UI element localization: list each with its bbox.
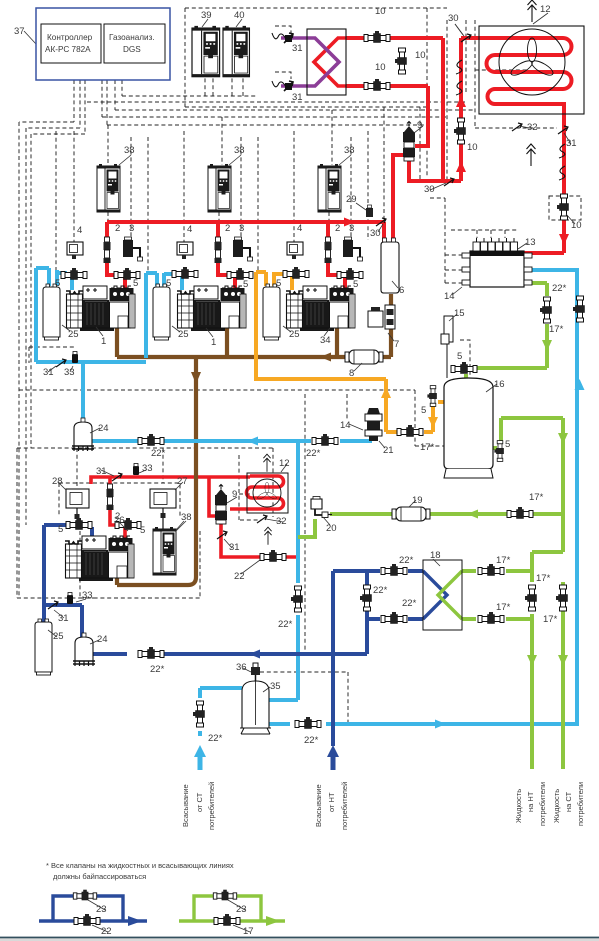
wire: MT discharge header to oil separator [107, 222, 384, 242]
drops to MT VFDs 38 [108, 110, 332, 165]
pressure switch 4 compressor 2 [177, 242, 193, 259]
svg-text:22*: 22* [304, 735, 319, 746]
LT condenser fan ring [253, 479, 281, 507]
air arrow above LT condenser [263, 454, 270, 472]
svg-text:DGS: DGS [123, 45, 141, 54]
air flow arrow below gas cooler [527, 144, 536, 166]
LT condenser 12 housing [247, 473, 288, 513]
line break mark [559, 166, 565, 180]
svg-text:27: 27 [177, 476, 188, 487]
per group sensor wires [74, 131, 294, 242]
valve 10 heat-reclaim bottom line [364, 79, 390, 91]
svg-text:5: 5 [58, 524, 63, 535]
compressor 1 (first MT) [66, 286, 135, 331]
receiver 16 [444, 378, 493, 478]
check valve 31 heat-reclaim top [284, 33, 293, 43]
wire: compressor 2 suction riser [146, 273, 178, 358]
left trunk corners [19, 122, 85, 134]
svg-text:потребителей: потребителей [340, 782, 349, 830]
wire: LT suction risers to HX18 [333, 571, 367, 746]
svg-text:19: 19 [412, 495, 423, 506]
leader lines [24, 19, 464, 531]
valve 5 flash-gas outlet [427, 386, 436, 407]
drops to VFD39/40 [205, 77, 243, 96]
svg-text:от НТ: от НТ [327, 792, 336, 812]
valve 5 liquid outlet [494, 441, 503, 462]
wire: HX11 hot gas lines [346, 38, 443, 86]
line break mark [456, 81, 462, 95]
suction path inside HX 18 [423, 571, 447, 619]
svg-text:потребителей: потребителей [207, 782, 216, 830]
svg-text:потребители: потребители [576, 782, 585, 826]
svg-text:3: 3 [239, 223, 244, 234]
wire: compressor 1 suction riser [36, 268, 67, 362]
check valve 33 MT suction [72, 352, 78, 364]
oil level valve 7 [368, 305, 395, 329]
valve 22* MT suction main [138, 434, 164, 446]
air flow arrow above gas cooler [528, 0, 537, 22]
svg-text:34: 34 [320, 335, 331, 346]
svg-text:должны байпассироваться: должны байпассироваться [53, 872, 146, 881]
heat reclaim water circuit (purple) [281, 38, 339, 86]
svg-text:17*: 17* [543, 614, 558, 625]
sensor 2 discharge compressor 26 [107, 484, 114, 510]
svg-text:5: 5 [140, 525, 145, 536]
dashed near valve10 under condenser [549, 196, 581, 220]
valve 5 suction compressor 1 [61, 268, 87, 280]
page bottom rule [0, 937, 599, 939]
valve 17* HX18 liquid in [478, 564, 504, 576]
marker 32 LT condenser fan control [257, 515, 267, 523]
wire: compressor 34 discharge branch [328, 222, 345, 288]
suction accumulator 25 compressor 1 [43, 284, 60, 340]
svg-text:5: 5 [55, 278, 60, 289]
svg-text:37: 37 [14, 26, 25, 37]
svg-text:25: 25 [178, 329, 189, 340]
legend valve 17 [214, 914, 240, 926]
svg-text:Жидкость: Жидкость [552, 789, 561, 823]
svg-text:2: 2 [115, 511, 120, 522]
wire: suction stub compressor 2 [180, 276, 184, 290]
drive unit 40 [223, 26, 249, 77]
valve 5 discharge compressor 2 [227, 268, 253, 280]
svg-text:на НТ: на НТ [526, 791, 535, 812]
wire: compressor 2 discharge branch [218, 222, 235, 288]
sensor 2 discharge compressor 2 [215, 237, 222, 263]
distributor 24 MT [72, 418, 94, 451]
marker 31 LT suction [48, 601, 58, 609]
svg-text:5: 5 [457, 351, 462, 362]
svg-text:29: 29 [346, 194, 357, 205]
liquid injection valve 20 [311, 497, 332, 518]
wire: receiver flash gas port [438, 400, 446, 404]
valve 5 discharge compressor 26 [115, 518, 141, 530]
svg-text:4: 4 [297, 223, 302, 234]
svg-text:5: 5 [166, 278, 171, 289]
svg-text:38: 38 [234, 145, 245, 156]
bypass regulator 21 [365, 408, 382, 441]
regulator 9 LT [215, 485, 227, 525]
valve 22 LT discharge to MT suction [260, 550, 286, 562]
wire: liquid main [330, 512, 563, 516]
svg-text:Всасывание: Всасывание [314, 784, 323, 827]
svg-text:21: 21 [383, 445, 394, 456]
wire: liquid from manifold to receiver [475, 283, 547, 368]
wire: hot gas/bypass line to manifold riser [269, 270, 577, 726]
LT condenser dashes [239, 455, 262, 520]
valve 5 discharge compressor 34 [337, 268, 363, 280]
svg-text:2: 2 [115, 223, 120, 234]
valve 10 heat-reclaim bypass [395, 48, 407, 74]
valve 22* MT suction at regulator 21 [312, 434, 338, 446]
wire: compressor 26 discharge riser [110, 477, 125, 539]
controller 37 panel with AK-PC 782A and DGS gas analyser [36, 8, 170, 80]
valve 17* liquid to LT consumers [525, 585, 537, 611]
valve 10 gas-cooler inlet riser [454, 118, 466, 144]
svg-text:5: 5 [353, 279, 358, 290]
line break mark [456, 60, 462, 74]
svg-text:38: 38 [344, 145, 355, 156]
marker 32 gas-cooler fan control [512, 123, 522, 131]
frequency drive 38 compressor 1 [97, 164, 120, 212]
wire: MT suction riser from accumulator 35 [269, 441, 298, 700]
wire: separator outlet riser to regulator 9 [393, 155, 404, 242]
solenoid 3 compressor 2 [233, 237, 253, 261]
frequency drive 38 compressor 26 [153, 527, 176, 575]
condenser fan control + item 32 line [475, 70, 557, 128]
svg-text:24: 24 [97, 634, 108, 645]
check 31 gas-cooler outlet [558, 126, 568, 134]
legend valve 23 [213, 890, 236, 900]
wire: heat reclaim top return drop [441, 38, 445, 181]
svg-text:22*: 22* [208, 733, 223, 744]
level sensor 15 [441, 316, 453, 378]
valve 5 suction compressor 34 [283, 267, 309, 279]
solenoid 3 compressor 34 [343, 237, 363, 261]
wire: gas cooler inlet riser [459, 38, 463, 181]
svg-text:22*: 22* [373, 585, 388, 596]
svg-text:35: 35 [270, 681, 281, 692]
svg-text:АК-РС 782А: АК-РС 782А [45, 45, 91, 54]
svg-text:40: 40 [234, 10, 245, 21]
svg-text:5: 5 [421, 405, 426, 416]
valve 5 suction compressor 26 [66, 518, 92, 530]
filter drier 19 [392, 507, 430, 521]
marker 30 at gas-cooler riser [444, 178, 454, 186]
wire: LT discharge header [91, 477, 250, 484]
check valve 33 LT discharge [133, 464, 139, 476]
svg-text:Жидкость: Жидкость [514, 789, 523, 823]
sensor 2 discharge compressor 1 [104, 237, 111, 263]
svg-text:* Все клапаны на жидкостных и: * Все клапаны на жидкостных и всасывающи… [46, 861, 234, 870]
svg-text:20: 20 [326, 523, 337, 534]
svg-text:8: 8 [349, 368, 354, 379]
wire: suction stub compressor 1 [70, 276, 74, 290]
svg-text:33: 33 [142, 463, 153, 474]
wire: liquid injection to MT suction [298, 519, 315, 537]
wire: gas cooler outlet to manifold 13 [524, 128, 564, 253]
svg-text:38: 38 [124, 145, 135, 156]
svg-text:22*: 22* [552, 283, 567, 294]
svg-text:15: 15 [454, 308, 465, 319]
port labels: suction/liquid consumer connections [181, 782, 585, 830]
valve 22* hot gas riser [573, 296, 585, 322]
svg-text:12: 12 [540, 4, 551, 15]
svg-text:22*: 22* [402, 598, 417, 609]
pressure switch 27 [150, 489, 176, 529]
marker 31 MT suction [56, 359, 66, 367]
wire: compressor 1 discharge branch [107, 222, 125, 288]
svg-text:33: 33 [64, 367, 75, 378]
svg-text:36: 36 [236, 662, 247, 673]
pressure switch 4 compressor 34 [287, 242, 303, 259]
svg-text:2: 2 [335, 223, 340, 234]
dashed corners at heat reclaim stubs [275, 26, 291, 79]
legend bypass loop (liquid valves 17/23) [179, 896, 285, 921]
heat exchanger 18 (subcooler) [423, 560, 462, 630]
frequency drive 38 compressor 34 [318, 164, 341, 212]
svg-text:39: 39 [201, 10, 212, 21]
controller drop wires [74, 80, 122, 134]
svg-text:3: 3 [129, 223, 134, 234]
svg-text:5: 5 [276, 278, 281, 289]
valve 5 discharge compressor 1 [114, 268, 140, 280]
wire: oil line to LT compressor [117, 357, 196, 585]
svg-text:7: 7 [394, 339, 399, 350]
verticals to top right area [427, 8, 475, 181]
svg-text:22*: 22* [150, 664, 165, 675]
svg-text:Контроллер: Контроллер [47, 33, 93, 42]
valve 17* liquid to MT consumers [556, 585, 568, 611]
svg-text:17*: 17* [536, 573, 551, 584]
legend valve 23 [73, 890, 96, 900]
svg-text:17*: 17* [549, 324, 564, 335]
motor valve 36 and suction accumulator 35 [240, 663, 271, 734]
svg-text:31: 31 [229, 542, 240, 553]
wire: gas cooler coil [461, 38, 572, 128]
valve 10 heat-reclaim top line [364, 31, 390, 43]
svg-text:23: 23 [236, 904, 247, 915]
receiver / misc [460, 340, 470, 394]
valve 5 receiver inlet [451, 362, 477, 374]
legend valve 22 [74, 914, 100, 926]
wire: MT suction subheader to distributor 24 [36, 362, 146, 422]
svg-text:9: 9 [417, 120, 422, 131]
marker 30 on discharge header [376, 218, 386, 226]
gas cooler fan blades [509, 38, 555, 78]
valve 5 suction compressor 2 [172, 267, 198, 279]
wire: MT suction main [92, 439, 372, 443]
svg-text:10: 10 [415, 50, 426, 61]
svg-text:10: 10 [375, 6, 386, 17]
fanout horizontals to right [87, 96, 475, 125]
LT condenser fan blades [257, 482, 278, 500]
suction accumulator 25 compressor 34 [263, 284, 280, 340]
svg-text:23: 23 [96, 904, 107, 915]
svg-text:31: 31 [292, 92, 303, 103]
svg-text:25: 25 [289, 329, 300, 340]
svg-text:30: 30 [370, 228, 381, 239]
sensor 2 discharge compressor 34 [325, 237, 332, 263]
wire: HX18 liquid connections [462, 571, 532, 619]
wire: LT suction main [92, 652, 367, 656]
valve 17* HX18 liquid out [478, 612, 504, 624]
wire: liquid lines to consumers [532, 552, 563, 769]
svg-text:5: 5 [505, 439, 510, 450]
svg-text:30: 30 [424, 184, 435, 195]
wire: oil return header from separator [117, 294, 391, 357]
svg-text:30: 30 [448, 13, 459, 24]
svg-text:22*: 22* [278, 619, 293, 630]
valve 10 gas-cooler outlet [557, 194, 569, 220]
wire: compressor 26 suction line [44, 525, 82, 637]
manifold control lines [430, 198, 445, 283]
wire: flash gas from receiver valve [424, 404, 433, 432]
marker 31 LT condenser outlet [217, 531, 227, 539]
wire: suction stub compressor 26 [90, 527, 94, 539]
LT enclosure [17, 448, 273, 598]
dashed to item 21 [305, 394, 347, 650]
solenoid 3 compressor 1 [123, 237, 143, 261]
MT rack enclosure [19, 390, 470, 446]
svg-text:Газоанализ.: Газоанализ. [109, 33, 155, 42]
compressor 34 (parallel) [286, 286, 355, 331]
svg-text:Всасывание: Всасывание [181, 784, 190, 827]
valve 22* MT suction riser [291, 586, 303, 612]
air arrow below LT condenser [264, 527, 271, 545]
svg-text:5: 5 [133, 278, 138, 289]
regulator 9 MT [403, 122, 415, 162]
svg-text:22*: 22* [399, 555, 414, 566]
svg-text:1: 1 [101, 336, 106, 347]
svg-text:22*: 22* [306, 448, 321, 459]
svg-text:18: 18 [430, 550, 441, 561]
top dashed enclosure [185, 8, 447, 107]
svg-text:потребители: потребители [538, 782, 547, 826]
gas cooler 12 housing [479, 26, 584, 114]
legend bypass loop (suction valves 22/23) [39, 896, 147, 921]
svg-text:17*: 17* [496, 602, 511, 613]
valve 17* liquid from manifold [540, 297, 552, 323]
valve 17* flash gas line [397, 425, 423, 437]
dashed around items 31/33 MT [29, 347, 75, 363]
wire: LT discharge into MT suction riser [221, 524, 298, 557]
distributor 24 LT [73, 633, 95, 666]
svg-text:1: 1 [211, 337, 216, 348]
valve 22* LT suction main [138, 647, 164, 659]
pressure switch 4 compressor 1 [67, 242, 83, 259]
check valve 31 heat-reclaim bottom [284, 81, 293, 91]
hot gas path inside HX 11 [314, 38, 346, 86]
svg-text:на СТ: на СТ [564, 791, 573, 812]
line break mark [559, 144, 565, 158]
liquid path inside HX 18 [438, 571, 462, 619]
wire: heat reclaim return to regulator 9 [415, 86, 428, 146]
oil filter 8 [345, 350, 383, 364]
wire: compressor 34 suction connections [256, 272, 287, 286]
compressor 1 (second MT) [177, 286, 246, 331]
drive unit 39 [192, 26, 220, 77]
check valve 33 LT suction [67, 593, 73, 605]
svg-text:17: 17 [243, 926, 254, 937]
svg-text:17*: 17* [420, 442, 435, 453]
wire: compressor oil stubs [117, 317, 337, 357]
svg-text:2: 2 [225, 223, 230, 234]
svg-text:31: 31 [292, 43, 303, 54]
svg-text:22*: 22* [151, 448, 166, 459]
suction accumulator 25 compressor 26 [35, 619, 52, 675]
wire: CT suction inlet to accumulator 35 [200, 688, 242, 736]
wire: receiver liquid outlet [493, 418, 563, 552]
wire: flash gas to compressor 34 suction [256, 272, 397, 432]
marker 30 at gas-cooler inlet [461, 34, 471, 42]
gas cooler fan ring [499, 29, 565, 95]
svg-text:16: 16 [494, 379, 505, 390]
wire: receiver inlet stub [464, 374, 468, 385]
valve 22* CT suction inlet [193, 701, 205, 727]
compressor 26 (LT) [65, 536, 134, 581]
valve 22* HX18 bypass [360, 585, 372, 611]
valve 17* liquid main [507, 507, 533, 519]
svg-text:от СТ: от СТ [195, 792, 204, 812]
line break mark heat-reclaim top [272, 33, 286, 39]
wire: LT condenser coil [230, 476, 284, 509]
svg-text:22: 22 [101, 926, 112, 937]
svg-text:10: 10 [467, 142, 478, 153]
heat exchanger 11 (heat reclaim) [307, 29, 346, 95]
svg-text:14: 14 [444, 291, 455, 302]
oil separator 6 [381, 238, 399, 293]
vessel 35 dashes [260, 672, 348, 724]
wire: HX18 suction connections [333, 571, 423, 619]
svg-text:13: 13 [525, 237, 536, 248]
svg-text:6: 6 [399, 285, 404, 296]
svg-text:17*: 17* [529, 492, 544, 503]
valve station manifold 13 [462, 238, 532, 287]
svg-text:17*: 17* [496, 555, 511, 566]
svg-text:31: 31 [566, 138, 577, 149]
valve 22* HX18 inlet [381, 564, 407, 576]
svg-text:10: 10 [375, 62, 386, 73]
valve 22* HX18 outlet [381, 612, 407, 624]
sensor 29 on discharge header [366, 205, 373, 217]
wire: suction stub compressor 34 [290, 276, 294, 290]
valve 22* accumulator bypass [295, 717, 321, 729]
wire: branch to regulator 9 LT [209, 477, 215, 516]
svg-text:3: 3 [349, 223, 354, 234]
red arrows [344, 96, 569, 245]
marker 31 LT discharge [112, 473, 122, 481]
wire: regulator 9 outlet to gas cooler riser [409, 161, 461, 181]
svg-text:4: 4 [77, 225, 82, 236]
svg-text:25: 25 [53, 631, 64, 642]
line break mark heat-reclaim bottom [272, 81, 286, 87]
svg-text:4: 4 [187, 224, 192, 235]
svg-text:5: 5 [243, 279, 248, 290]
suction accumulator 25 compressor 2 [153, 284, 170, 340]
frequency drive 38 compressor 2 [208, 164, 231, 212]
svg-text:14: 14 [340, 420, 351, 431]
wire: manifold 13 middle port [524, 268, 579, 272]
svg-text:38: 38 [181, 512, 192, 523]
pressure switch 28 [66, 489, 89, 522]
